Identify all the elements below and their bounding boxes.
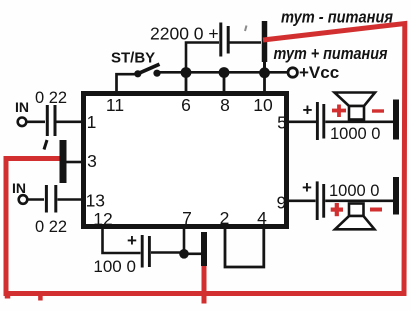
svg-text:6: 6: [181, 95, 191, 115]
terminal IN bottom circle: [19, 195, 28, 204]
svg-text:100 0: 100 0: [93, 257, 136, 276]
polarity red - speaker1: [372, 109, 384, 112]
svg-text:8: 8: [220, 95, 230, 115]
svg-text:+Vcc: +Vcc: [299, 63, 339, 82]
wire C6 to bar: [325, 199, 394, 202]
wire pin12 branch: [103, 228, 141, 253]
wire IN2 lead: [28, 198, 45, 201]
node junction pin8: [219, 67, 230, 78]
svg-text:11: 11: [106, 95, 124, 115]
speaker LS2 driver: [349, 204, 364, 217]
op-amp IC U1 body: [84, 94, 287, 227]
switch ST/BY blade: [139, 64, 160, 73]
wire pin3 lead: [66, 161, 81, 164]
wire pin7 drop: [183, 228, 186, 254]
svg-text:10: 10: [253, 95, 273, 115]
wire node to ground bar: [187, 253, 202, 256]
svg-text:1000 0: 1000 0: [330, 125, 380, 143]
svg-text:+: +: [303, 101, 313, 120]
faint tick mark: [245, 26, 247, 32]
wire C5 to bar: [325, 120, 394, 123]
power bar minus terminal top: [262, 21, 268, 62]
svg-text:1000 0: 1000 0: [329, 182, 379, 200]
wire pin9 lead: [289, 199, 316, 202]
ground bar speaker1: [393, 100, 399, 140]
terminal +Vcc circle: [288, 68, 297, 77]
ground bar speaker2: [393, 177, 399, 215]
svg-text:0 22: 0 22: [35, 218, 67, 236]
svg-text:+: +: [302, 178, 312, 197]
wire pin2-pin4 bridge: [225, 228, 264, 267]
speaker LS1 driver: [349, 106, 364, 120]
svg-text:9: 9: [277, 192, 287, 212]
wire 2200uF branch: [186, 43, 219, 73]
wire C2 to pin1: [57, 121, 82, 124]
wire Vcc bus: [159, 71, 289, 74]
ground bar pin7: [201, 232, 207, 266]
svg-text:7: 7: [182, 208, 192, 228]
wire IN1 lead: [27, 121, 46, 124]
node junction pin10: [259, 67, 270, 78]
svg-text:1: 1: [87, 112, 97, 132]
wire C3 to pin13: [58, 198, 82, 201]
capacitor C5 1000 plates: [316, 102, 319, 140]
svg-text:тут + питания: тут + питания: [274, 45, 388, 63]
red corner drip: [5, 294, 11, 299]
polarity red + speaker2: [331, 203, 343, 216]
wire pin11 to switch: [117, 74, 136, 93]
svg-text:5: 5: [277, 113, 287, 133]
capacitor C3 0.22 plates: [45, 185, 48, 213]
node junction pin6: [181, 67, 192, 78]
svg-text:0 22: 0 22: [35, 89, 67, 107]
wire C4 to pin7 node: [151, 251, 184, 254]
switch contact dot left: [134, 70, 141, 77]
svg-text:тут - питания: тут - питания: [281, 9, 393, 27]
wire pin6 drop: [185, 72, 188, 93]
capacitor C6 1000 plates: [316, 181, 319, 220]
capacitor bar pin3: [60, 140, 67, 183]
wire pin8 drop: [223, 72, 226, 93]
polarity red - speaker2: [370, 208, 382, 212]
polarity red + speaker1: [332, 105, 346, 118]
wire pin10 drop: [263, 72, 266, 93]
terminal IN top circle: [18, 118, 27, 127]
node junction pin7: [179, 249, 189, 259]
svg-text:4: 4: [257, 208, 267, 228]
speaker LS2 horn: [335, 216, 375, 229]
wire C1 right lead: [230, 41, 262, 44]
capacitor C4 100 plates: [141, 235, 144, 268]
capacitor C1 2200 plates: [219, 23, 222, 57]
apostrophe mark: [44, 140, 47, 150]
svg-text:IN: IN: [12, 180, 26, 196]
red tick bottom left: [38, 295, 43, 301]
wire red pin7 stub: [202, 266, 207, 304]
svg-text:3: 3: [87, 151, 97, 171]
svg-text:2: 2: [220, 208, 230, 228]
speaker LS1 horn: [335, 93, 376, 107]
svg-text:13: 13: [86, 191, 105, 211]
capacitor C2 0.22 plates: [46, 105, 49, 136]
svg-text:ST/BY: ST/BY: [111, 50, 155, 67]
wire pin5 lead: [289, 120, 316, 123]
svg-text:IN: IN: [15, 99, 29, 115]
switch contact dot right: [153, 70, 160, 77]
wire bar to bus: [263, 62, 266, 72]
svg-text:+: +: [127, 231, 137, 250]
svg-text:2200 0 +: 2200 0 +: [150, 24, 219, 44]
svg-text:12: 12: [93, 209, 112, 229]
